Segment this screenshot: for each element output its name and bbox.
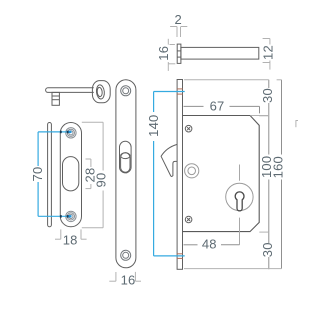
svg-text:48: 48 (202, 236, 217, 251)
svg-text:160: 160 (270, 156, 285, 178)
svg-text:28: 28 (83, 168, 98, 183)
svg-text:18: 18 (63, 232, 78, 247)
svg-text:12: 12 (261, 45, 276, 60)
svg-text:140: 140 (146, 115, 161, 137)
svg-text:2: 2 (174, 12, 181, 27)
svg-text:16: 16 (156, 46, 171, 61)
svg-text:16: 16 (121, 273, 136, 288)
svg-text:70: 70 (30, 167, 45, 182)
svg-text:30: 30 (260, 242, 275, 257)
svg-text:67: 67 (210, 98, 225, 113)
svg-text:30: 30 (260, 88, 275, 103)
